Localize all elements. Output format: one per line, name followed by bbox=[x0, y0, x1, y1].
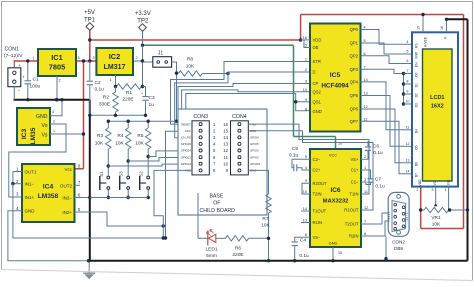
wire IC1 output to IC2 input bbox=[76, 60, 96, 62]
svg-text:MAX3232: MAX3232 bbox=[323, 199, 349, 205]
wire QP2 to LCD EN bbox=[361, 56, 404, 64]
wire IC6 T2OUT to DB9 bbox=[361, 213, 388, 224]
wire IC4 IN2+ bbox=[75, 212, 164, 226]
svg-text:Vs: Vs bbox=[41, 133, 47, 139]
display LCD1 16x2 bbox=[412, 32, 458, 186]
wire IC4 IN2- to ground line bbox=[75, 197, 90, 199]
svg-text:J1: J1 bbox=[158, 51, 164, 57]
capacitor C1 100u bbox=[27, 61, 29, 80]
svg-text:A-VEE: A-VEE bbox=[424, 36, 428, 47]
svg-text:IC3: IC3 bbox=[21, 128, 28, 139]
wire IC2 ADJ pin 1 bbox=[115, 75, 117, 87]
svg-text:1: 1 bbox=[364, 166, 366, 170]
svg-text:9: 9 bbox=[305, 98, 307, 102]
wire IC6 R1IN stub bbox=[301, 222, 310, 224]
svg-text:C4: C4 bbox=[300, 238, 306, 244]
svg-text:0.1u: 0.1u bbox=[373, 150, 383, 156]
svg-text:D: D bbox=[313, 70, 316, 75]
wire GND right-side riser bbox=[467, 19, 469, 260]
svg-text:GND: GND bbox=[313, 109, 322, 114]
svg-text:C2−: C2− bbox=[313, 157, 321, 162]
svg-text:1: 1 bbox=[305, 58, 307, 62]
resistor R3 10K bbox=[107, 121, 109, 128]
svg-text:GPIO13: GPIO13 bbox=[181, 162, 192, 166]
svg-text:1: 1 bbox=[109, 78, 111, 82]
wire +5V LCD VDD riser bbox=[420, 187, 422, 229]
svg-text:5: 5 bbox=[305, 155, 307, 159]
wire IC6 GND to bus bbox=[332, 247, 334, 261]
sensor IC3 LM35 bbox=[17, 108, 50, 145]
svg-text:IN1+: IN1+ bbox=[25, 195, 35, 200]
svg-text:R2: R2 bbox=[103, 95, 109, 101]
wire QP3 to LCD D0 bbox=[361, 69, 404, 73]
svg-text:13: 13 bbox=[406, 158, 410, 162]
wire GND main vertical bbox=[89, 100, 91, 261]
resistor R5 10K bbox=[147, 121, 149, 128]
transceiver IC6 MAX3232 bbox=[310, 149, 361, 247]
wire IC6 VCC stub bbox=[335, 137, 337, 150]
wire CON4 TXD to IC6 T1IN bbox=[248, 124, 369, 194]
svg-text:T2OUT: T2OUT bbox=[345, 222, 359, 227]
svg-text:S2: S2 bbox=[139, 171, 144, 177]
svg-text:11: 11 bbox=[406, 125, 410, 129]
svg-text:CON2: CON2 bbox=[392, 240, 405, 245]
wire LCD A-VEE pin 15 to +5V bbox=[422, 15, 424, 33]
wire QP7 to LCD D7 bbox=[361, 121, 404, 174]
svg-text:RS: RS bbox=[415, 43, 419, 48]
wire VR1 right to GND bbox=[449, 209, 468, 211]
wire switches ground row bbox=[90, 197, 148, 199]
wire IC3 Vo to IC4 IN1+ bbox=[9, 124, 66, 197]
wire IC6 T1OUT stub bbox=[301, 210, 310, 212]
svg-text:0.1u: 0.1u bbox=[299, 253, 309, 259]
svg-text:R2OUT: R2OUT bbox=[313, 181, 328, 186]
svg-text:VS+: VS+ bbox=[350, 157, 359, 162]
svg-text:10K: 10K bbox=[261, 223, 270, 229]
svg-text:R3: R3 bbox=[97, 133, 103, 139]
svg-text:3: 3 bbox=[432, 188, 434, 192]
wire LCD D1 D2 D3 stubs bbox=[404, 83, 412, 85]
ground symbol bbox=[88, 261, 90, 273]
svg-text:OF: OF bbox=[213, 201, 220, 207]
wire DB9 ground bbox=[385, 236, 387, 260]
jumper J1 bbox=[143, 61, 153, 63]
wire CON1 bottom pin to GND bus bbox=[13, 87, 15, 100]
svg-text:R2IN: R2IN bbox=[349, 234, 359, 239]
svg-text:TP2: TP2 bbox=[137, 19, 149, 25]
svg-text:13: 13 bbox=[303, 219, 307, 223]
resistor R1 220E bbox=[117, 84, 142, 89]
svg-text:GND: GND bbox=[36, 114, 48, 120]
svg-text:1: 1 bbox=[53, 129, 55, 133]
svg-text:D1: D1 bbox=[415, 83, 419, 87]
svg-text:1: 1 bbox=[32, 57, 34, 61]
svg-text:C7: C7 bbox=[375, 177, 381, 183]
wire LCD K pin 16 to GND bbox=[446, 19, 448, 32]
svg-text:D2: D2 bbox=[415, 93, 419, 97]
svg-text:R7: R7 bbox=[262, 216, 268, 222]
resistor R7 10K bbox=[248, 170, 268, 194]
svg-text:10: 10 bbox=[223, 162, 228, 167]
wire S3 contacts bbox=[127, 161, 129, 176]
potentiometer VR1 10K bbox=[424, 207, 449, 212]
svg-text:C1: C1 bbox=[33, 77, 39, 83]
op-amp IC4 LM358 bbox=[22, 164, 75, 222]
capacitor C2 0.1u bbox=[89, 61, 91, 81]
svg-text:15: 15 bbox=[223, 128, 228, 133]
wire +5V riser to top rail bbox=[300, 15, 302, 41]
wire CON1 top pin bbox=[13, 61, 15, 68]
svg-text:IC1: IC1 bbox=[51, 53, 63, 62]
svg-text:IC6: IC6 bbox=[331, 187, 341, 194]
svg-text:1: 1 bbox=[445, 188, 447, 192]
svg-text:DB9: DB9 bbox=[394, 246, 403, 251]
wire J1-R8 node to pull-up rail bbox=[176, 73, 178, 121]
svg-text:QP3: QP3 bbox=[350, 67, 359, 72]
svg-text:QP6: QP6 bbox=[350, 107, 359, 112]
svg-text:T2IN: T2IN bbox=[313, 192, 322, 197]
wire S1 contacts bbox=[107, 166, 109, 176]
svg-text:Vss: Vss bbox=[447, 179, 451, 185]
wire GPIO16 line to IC5 CP bbox=[178, 84, 310, 145]
wire ADC signal down and right bbox=[13, 184, 163, 238]
svg-text:R4: R4 bbox=[117, 133, 123, 139]
svg-text:D0: D0 bbox=[415, 73, 419, 77]
svg-text:14: 14 bbox=[223, 135, 228, 140]
svg-text:3: 3 bbox=[305, 80, 307, 84]
wire RESET line to IC5 STR bbox=[171, 62, 311, 125]
svg-text:Vcc: Vcc bbox=[64, 167, 72, 172]
svg-text:6: 6 bbox=[407, 59, 409, 63]
wire +3.3V green run to IC6 VCC bbox=[294, 136, 336, 138]
svg-text:BASE: BASE bbox=[209, 194, 223, 200]
svg-text:10K: 10K bbox=[186, 64, 195, 70]
svg-text:3: 3 bbox=[77, 56, 79, 60]
wire IC4 GND pin 4 bbox=[8, 211, 89, 261]
svg-text:GPIO16: GPIO16 bbox=[181, 142, 192, 146]
svg-text:7: 7 bbox=[407, 69, 409, 73]
wire IC6 R2IN to DB9 bbox=[361, 221, 388, 236]
capacitor C7 0.1u bbox=[361, 170, 371, 178]
wire IC2 output to node bbox=[133, 60, 143, 62]
svg-text:LM35: LM35 bbox=[30, 127, 37, 144]
junction dots +5V node bbox=[82, 59, 85, 62]
svg-text:LED1: LED1 bbox=[206, 247, 218, 253]
svg-text:100u: 100u bbox=[30, 84, 41, 90]
svg-text:C6: C6 bbox=[373, 144, 379, 150]
wire QP6 to LCD D6 bbox=[361, 109, 404, 163]
wire GND bus left section bbox=[14, 99, 90, 101]
svg-text:D6: D6 bbox=[415, 162, 419, 166]
svg-text:9 8 7 6: 9 8 7 6 bbox=[405, 212, 409, 220]
svg-text:8: 8 bbox=[364, 232, 366, 236]
svg-text:R1: R1 bbox=[126, 90, 132, 96]
svg-text:QS2: QS2 bbox=[313, 90, 322, 95]
svg-text:10K: 10K bbox=[135, 141, 144, 147]
svg-text:6: 6 bbox=[305, 233, 307, 237]
svg-text:16: 16 bbox=[223, 122, 228, 127]
svg-text:9: 9 bbox=[305, 179, 307, 183]
svg-text:Vo: Vo bbox=[41, 123, 47, 129]
svg-text:2: 2 bbox=[364, 155, 366, 159]
svg-text:CH_PD: CH_PD bbox=[181, 136, 190, 140]
svg-text:R/W: R/W bbox=[415, 51, 419, 58]
wire J1 to R8 bbox=[172, 62, 177, 73]
regulator IC1 7805 bbox=[38, 49, 76, 76]
svg-text:GND: GND bbox=[329, 241, 338, 246]
switch S1 bbox=[107, 176, 110, 179]
svg-text:QP5: QP5 bbox=[350, 93, 359, 98]
svg-text:0.1u: 0.1u bbox=[375, 184, 385, 190]
wire +5V feed to IC4 Vcc bbox=[83, 61, 85, 169]
wire IC6 T2IN R2OUT loop bbox=[302, 183, 310, 194]
wire CON3 VCC route bbox=[154, 170, 192, 238]
svg-text:QP1: QP1 bbox=[350, 41, 359, 46]
wire QP1 to LCD R/W bbox=[361, 43, 404, 54]
svg-text:16: 16 bbox=[440, 26, 444, 30]
capacitor C4 0.1u bbox=[295, 237, 310, 241]
svg-text:16X2: 16X2 bbox=[431, 104, 444, 110]
svg-text:ADC: ADC bbox=[185, 129, 191, 133]
wire pull-up rail bbox=[108, 120, 176, 122]
svg-text:VCC: VCC bbox=[329, 153, 337, 158]
wire IC4 OUT2 stub bbox=[75, 184, 81, 186]
wire LCD stub connects bbox=[404, 43, 412, 45]
wire divider ground return bbox=[90, 114, 146, 116]
svg-text:VO: VO bbox=[433, 180, 437, 185]
wire IC4 OUT1 to IN1- feedback bbox=[13, 172, 22, 184]
svg-text:IN1−: IN1− bbox=[25, 182, 35, 187]
svg-text:220E: 220E bbox=[122, 97, 133, 103]
svg-text:C1+: C1+ bbox=[351, 168, 359, 173]
regulator IC2 LM317 bbox=[96, 48, 133, 75]
svg-text:GPIO2: GPIO2 bbox=[250, 155, 259, 159]
svg-text:D4: D4 bbox=[415, 129, 419, 133]
wire S1 tap to CON3 bbox=[108, 164, 192, 166]
svg-text:QP4: QP4 bbox=[350, 80, 359, 85]
resistor R6 220E bbox=[216, 237, 226, 239]
svg-text:GPIO12: GPIO12 bbox=[181, 155, 192, 159]
svg-text:11: 11 bbox=[224, 155, 229, 160]
svg-text:STR: STR bbox=[313, 59, 321, 64]
svg-text:VR1: VR1 bbox=[431, 215, 441, 221]
svg-text:T1OUT: T1OUT bbox=[313, 209, 327, 214]
shift register IC5 HCF4094 bbox=[310, 24, 361, 132]
svg-text:15: 15 bbox=[338, 251, 342, 255]
svg-text:8: 8 bbox=[305, 108, 307, 112]
svg-text:GPIO0: GPIO0 bbox=[250, 149, 259, 153]
connector CON2 DB9 bbox=[388, 192, 409, 236]
svg-text:CON1: CON1 bbox=[5, 47, 20, 53]
svg-text:0.1u: 0.1u bbox=[95, 87, 105, 93]
wire +5V bottom segment to LCD VDD bbox=[421, 228, 464, 230]
svg-text:LM317: LM317 bbox=[104, 64, 126, 71]
svg-text:10K: 10K bbox=[432, 222, 441, 228]
svg-text:13: 13 bbox=[223, 142, 228, 147]
svg-text:RESET: RESET bbox=[181, 122, 191, 126]
svg-text:10: 10 bbox=[406, 100, 410, 104]
svg-text:QP7: QP7 bbox=[350, 119, 359, 124]
wire +3.3V green rail bbox=[143, 44, 294, 46]
svg-text:7805: 7805 bbox=[49, 63, 65, 72]
svg-text:5: 5 bbox=[407, 50, 409, 54]
svg-text:12: 12 bbox=[223, 148, 228, 153]
wire +3.3V green drop bbox=[293, 45, 295, 136]
svg-text:11: 11 bbox=[364, 190, 368, 194]
wire LCD VSS pin 1 bbox=[448, 187, 450, 210]
wire +5V top rail bbox=[301, 14, 464, 16]
wire CON1 to IC1 input bbox=[14, 60, 39, 62]
svg-text:CON4: CON4 bbox=[232, 114, 247, 120]
svg-text:2: 2 bbox=[305, 68, 307, 72]
svg-text:5 4 3 2 1: 5 4 3 2 1 bbox=[387, 211, 391, 222]
wire GPIO line to IC5 QS1 and GND bbox=[186, 94, 310, 132]
svg-text:S1: S1 bbox=[99, 171, 104, 177]
svg-text:3: 3 bbox=[92, 56, 94, 60]
svg-text:D7: D7 bbox=[415, 173, 419, 177]
wire CH_PD line to IC5 D bbox=[175, 72, 310, 138]
svg-text:GPIO4: GPIO4 bbox=[250, 136, 259, 140]
wire GPIO line to IC5 QS2 bbox=[182, 90, 310, 138]
svg-text:15: 15 bbox=[417, 26, 421, 30]
svg-text:10K: 10K bbox=[115, 141, 124, 147]
svg-text:4: 4 bbox=[407, 40, 409, 44]
wire IC5 VDD+OE to +5V bbox=[301, 39, 310, 41]
wire +5V right-side drop bbox=[463, 15, 465, 229]
svg-text:EN: EN bbox=[415, 62, 419, 67]
svg-text:1u: 1u bbox=[149, 102, 155, 108]
faint page scan line bbox=[2, 270, 473, 281]
svg-text:QP2: QP2 bbox=[350, 53, 359, 58]
svg-text:GND: GND bbox=[25, 209, 36, 214]
capacitor C5 0.1u bbox=[292, 159, 310, 168]
svg-text:QS1: QS1 bbox=[313, 100, 322, 105]
page border frame bbox=[1, 1, 473, 3]
wire GND bottom bus bbox=[89, 260, 468, 262]
svg-text:D3: D3 bbox=[415, 103, 419, 107]
wire S2 tap to CON3 bbox=[148, 151, 192, 157]
capacitor C3 1u bbox=[143, 86, 146, 88]
svg-text:R5: R5 bbox=[137, 133, 143, 139]
svg-text:2: 2 bbox=[417, 188, 419, 192]
wire +5V rail from TP1 to IC5 VDD bbox=[90, 39, 301, 41]
wire GND top segment to LCD K pin bbox=[447, 18, 468, 20]
wire QP4 to LCD D4 bbox=[361, 82, 404, 130]
resistor R4 10K bbox=[127, 121, 129, 128]
svg-text:LCD1: LCD1 bbox=[430, 95, 444, 101]
svg-text:C2: C2 bbox=[95, 80, 101, 86]
connector CON1 bbox=[8, 68, 21, 87]
svg-text:R1OUT: R1OUT bbox=[344, 208, 359, 213]
svg-text:CON3: CON3 bbox=[193, 114, 208, 120]
svg-text:0.1u: 0.1u bbox=[289, 153, 299, 159]
wire LCD unused data tie bbox=[403, 74, 405, 105]
svg-text:12: 12 bbox=[406, 142, 410, 146]
svg-text:2: 2 bbox=[135, 56, 137, 60]
svg-text:LM358: LM358 bbox=[38, 193, 59, 200]
svg-text:OUT1: OUT1 bbox=[25, 170, 37, 175]
svg-text:C5: C5 bbox=[292, 146, 298, 152]
junction dots switch taps bbox=[107, 164, 110, 167]
wire LCD VO pin 3 bbox=[435, 187, 437, 203]
svg-text:CHILD BOARD: CHILD BOARD bbox=[199, 208, 235, 214]
svg-text:10K: 10K bbox=[95, 141, 104, 147]
svg-text:(7–12)/V: (7–12)/V bbox=[4, 53, 23, 59]
svg-text:C2+: C2+ bbox=[313, 168, 321, 173]
capacitor C6 0.1u bbox=[361, 151, 368, 159]
wire TP2 stub bbox=[142, 32, 144, 46]
svg-text:HCF4094: HCF4094 bbox=[321, 83, 349, 90]
svg-text:IC4: IC4 bbox=[43, 184, 54, 191]
svg-text:QP0: QP0 bbox=[350, 27, 359, 32]
resistor R2 330E bbox=[113, 92, 118, 112]
svg-text:3: 3 bbox=[52, 110, 54, 114]
svg-text:OUT2: OUT2 bbox=[60, 184, 72, 189]
svg-text:S3: S3 bbox=[119, 171, 124, 177]
svg-text:CP: CP bbox=[313, 81, 319, 86]
wire TP1 stub bbox=[89, 29, 91, 61]
svg-text:220E: 220E bbox=[232, 252, 243, 258]
wire ADC riser to CON3 bbox=[166, 131, 193, 238]
svg-text:10: 10 bbox=[303, 190, 307, 194]
LED LED1 5mm bbox=[198, 237, 208, 239]
wire LED feed from child board bbox=[197, 193, 199, 238]
svg-text:R8: R8 bbox=[187, 57, 193, 63]
svg-text:T1IN: T1IN bbox=[349, 192, 358, 197]
svg-text:+: + bbox=[141, 92, 143, 96]
switch S2 bbox=[147, 176, 150, 179]
svg-text:IC2: IC2 bbox=[109, 52, 121, 61]
svg-text:7: 7 bbox=[364, 220, 366, 224]
svg-text:4: 4 bbox=[305, 166, 307, 170]
wire IC3 GND to bus bbox=[50, 100, 62, 116]
svg-text:2: 2 bbox=[58, 79, 60, 83]
svg-text:GPIO15: GPIO15 bbox=[250, 162, 261, 166]
svg-text:+: + bbox=[18, 63, 21, 68]
wire IC2 output node riser bbox=[142, 45, 144, 86]
svg-text:14: 14 bbox=[406, 169, 410, 173]
svg-text:VDD: VDD bbox=[418, 179, 422, 187]
svg-text:8: 8 bbox=[407, 80, 409, 84]
wire QP5 to LCD D5 bbox=[361, 96, 404, 147]
wire S2 contacts bbox=[147, 157, 149, 177]
svg-text:VDD: VDD bbox=[313, 38, 322, 43]
svg-text:IC5: IC5 bbox=[330, 72, 341, 79]
svg-text:IN2+: IN2+ bbox=[62, 210, 72, 215]
svg-text:OE: OE bbox=[313, 45, 319, 50]
svg-text:2: 2 bbox=[53, 120, 55, 124]
wire R8 to IC5 D line bbox=[202, 73, 228, 75]
svg-text:+5V: +5V bbox=[84, 10, 95, 16]
svg-text:D5: D5 bbox=[415, 145, 419, 149]
svg-text:9: 9 bbox=[407, 90, 409, 94]
svg-text:R6: R6 bbox=[235, 246, 241, 252]
switch S3 bbox=[127, 176, 130, 179]
svg-text:IN2−: IN2− bbox=[62, 196, 72, 201]
svg-text:GPIO5: GPIO5 bbox=[250, 142, 259, 146]
svg-text:C1−: C1− bbox=[351, 180, 359, 185]
svg-text:5mm: 5mm bbox=[206, 253, 217, 259]
svg-text:3: 3 bbox=[364, 178, 366, 182]
wire QP0 to LCD RS bbox=[361, 30, 404, 45]
svg-text:GPIO14: GPIO14 bbox=[181, 149, 192, 153]
resistor R8 10K bbox=[179, 71, 203, 76]
svg-text:+3.3V: +3.3V bbox=[135, 11, 151, 17]
svg-text:R1IN: R1IN bbox=[313, 220, 323, 225]
svg-text:330E: 330E bbox=[99, 102, 110, 108]
svg-text:14: 14 bbox=[303, 207, 307, 211]
wire IC3 Vs to +5V feed bbox=[50, 133, 84, 135]
